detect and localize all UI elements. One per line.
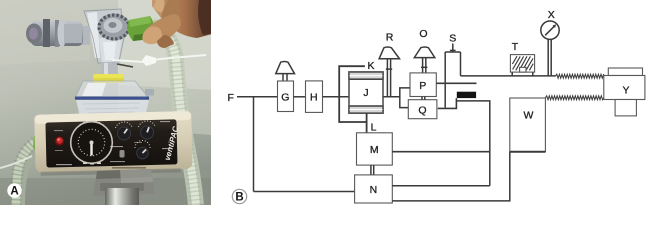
component Y (patient valve) xyxy=(604,68,645,116)
component M xyxy=(357,133,393,165)
label B xyxy=(232,189,246,203)
wire: bar to vertical drop xyxy=(457,101,490,186)
wire: M output xyxy=(392,151,490,153)
photo: right corrugated hose xyxy=(152,26,196,205)
corrugated hose: W to Y xyxy=(545,96,603,100)
svg-text:L: L xyxy=(371,122,377,134)
component O (exhaust horn on P) xyxy=(414,28,435,73)
photo: mounting bracket and pole xyxy=(93,169,155,205)
svg-text:B: B xyxy=(235,192,243,204)
photo: arm and hand xyxy=(142,0,212,48)
svg-text:R: R xyxy=(386,31,394,43)
photo: yellow collar and stem xyxy=(93,62,124,83)
photo: patient port metal cylinder xyxy=(26,19,90,47)
svg-text:M: M xyxy=(370,144,379,156)
photo: exhalation valve disc xyxy=(98,14,131,41)
svg-text:Q: Q xyxy=(418,105,426,117)
photo: green connector held by hand xyxy=(127,16,154,41)
restrictor bar (black) xyxy=(457,92,476,98)
photo: thin white cable lower left xyxy=(0,156,32,168)
wire: G to H xyxy=(294,96,306,98)
svg-text:F: F xyxy=(228,92,234,104)
photo: shadow under case xyxy=(41,168,181,175)
wire: junction drop from inlet line xyxy=(253,97,255,192)
photo: thin pressure line and connector xyxy=(112,55,206,67)
photo: ventilator case xyxy=(34,111,192,173)
component Q xyxy=(408,100,437,119)
component G (inlet valve with horn) xyxy=(276,61,295,111)
panel divider: white area xyxy=(211,0,650,205)
svg-text:S: S xyxy=(449,33,456,45)
photo: control knobs xyxy=(110,121,171,162)
svg-text:K: K xyxy=(367,60,374,72)
photo: red button xyxy=(54,130,72,165)
label A xyxy=(7,183,21,197)
photo: clear reservoir dome xyxy=(75,81,154,117)
wire: P output stub xyxy=(436,82,476,84)
svg-text:N: N xyxy=(370,184,378,196)
component H xyxy=(306,81,323,113)
photo: clear valve body xyxy=(84,9,124,64)
photo: left corrugated hose xyxy=(11,136,48,205)
photo: green elbow into device xyxy=(33,135,46,151)
svg-text:A: A xyxy=(10,186,18,198)
photo: wall background xyxy=(0,0,212,205)
wire: F to G xyxy=(237,96,278,98)
wire: J to P valve line xyxy=(383,96,400,98)
photo: panel gauge xyxy=(70,121,113,165)
component P xyxy=(410,73,436,97)
photo: label strip under panel xyxy=(112,167,146,169)
node L (link J to M) xyxy=(367,113,377,133)
component R (exhaust horn) xyxy=(379,31,399,97)
wire: bottom bus to N xyxy=(254,191,355,193)
component J (pneumatic cylinder) xyxy=(349,72,383,113)
wire: N lower output to W xyxy=(392,152,510,201)
wire: M-N connector xyxy=(371,165,374,175)
wire: main breathing line to T/X xyxy=(461,75,556,77)
svg-text:G: G xyxy=(281,91,289,103)
wire: Q output to bar xyxy=(438,98,457,108)
svg-text:O: O xyxy=(419,28,427,40)
svg-text:P: P xyxy=(419,80,426,92)
svg-text:H: H xyxy=(310,91,318,103)
enclosure K bracket xyxy=(339,60,374,122)
wire: N upper output xyxy=(392,185,490,187)
corrugated hose: line to Y xyxy=(556,74,604,78)
component W xyxy=(510,98,546,152)
wire: P-Q connector xyxy=(422,97,425,100)
component S (port) xyxy=(445,33,460,108)
wire: bracket P to Q left xyxy=(400,88,410,108)
svg-text:W: W xyxy=(524,110,534,122)
svg-text:Y: Y xyxy=(622,84,629,96)
component X (pressure gauge) xyxy=(541,9,559,76)
svg-text:T: T xyxy=(512,41,519,53)
svg-text:X: X xyxy=(548,9,555,21)
component N xyxy=(355,175,393,203)
wire: H to J xyxy=(323,96,350,98)
svg-text:J: J xyxy=(363,87,368,99)
component T (relief valve with spring) xyxy=(510,41,534,76)
